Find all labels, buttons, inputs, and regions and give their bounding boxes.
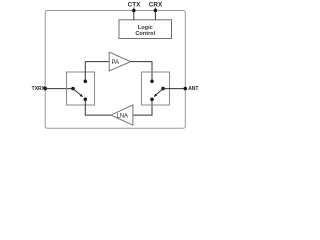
outer module boundary — [45, 11, 185, 129]
node SW2 throw to LNA — [150, 98, 154, 102]
svg-text:LNA: LNA — [117, 113, 128, 119]
wire SW2 pole to ANT — [163, 88, 185, 90]
node SW2 throw from PA — [150, 80, 154, 84]
node CTX junction on boundary — [132, 9, 136, 13]
SW2 wiper arrow to LNA throw — [154, 89, 163, 97]
Logic Control block — [119, 20, 172, 39]
SW1 wiper arrow to LNA throw — [73, 89, 83, 98]
svg-text:CRX: CRX — [149, 2, 163, 9]
wire PA output to SW2 throw — [131, 62, 152, 82]
wire LNA output to SW1 throw — [85, 99, 111, 115]
amplifier LNA — [111, 105, 133, 125]
switch SW1 box — [67, 72, 95, 105]
svg-text:CTX: CTX — [128, 2, 142, 9]
svg-text:PA: PA — [112, 60, 120, 66]
wire TXRX to SW1 pole — [45, 88, 73, 90]
amplifier PA — [109, 52, 131, 71]
node SW1 throw to PA — [84, 80, 88, 84]
svg-text:ANT: ANT — [188, 86, 198, 92]
node TXRX pin on boundary — [43, 87, 47, 91]
wire CRX to Logic Control — [154, 8, 156, 20]
wire SW1 throw up to PA input — [85, 62, 109, 82]
node CRX junction on boundary — [154, 9, 158, 13]
wire SW2 throw down to LNA input — [133, 99, 152, 115]
node SW2 pole — [161, 87, 165, 91]
wire CTX to Logic Control — [133, 8, 135, 20]
node ANT pin on boundary — [184, 87, 188, 91]
node SW1 pole — [71, 87, 75, 91]
svg-text:Control: Control — [135, 31, 155, 37]
node SW1 throw to LNA — [84, 98, 88, 102]
switch SW2 box — [142, 72, 170, 105]
